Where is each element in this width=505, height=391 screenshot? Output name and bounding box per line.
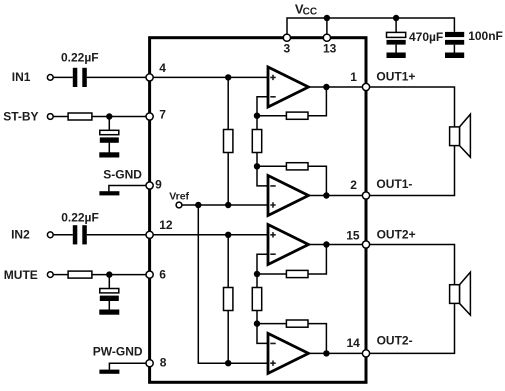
terminal MUTE [47,272,53,278]
node pin12 row / Ri2 top [225,232,231,238]
pin 7 [146,113,153,120]
node op2 output [323,192,329,198]
svg-text:12: 12 [159,218,173,232]
wire S-GND from pin 9 [109,186,148,192]
svg-text:OUT2-: OUT2- [377,334,413,348]
pin 15 [362,241,369,248]
wire fb3 left segment [257,273,286,275]
resistor Rf3 (op3 feedback) [286,270,308,277]
speaker LS2 cone [460,272,471,315]
wire op3 - input [257,254,268,274]
pin 4 [146,74,153,81]
wire LS1 to OUT1- [366,146,455,196]
pin 3 [283,34,290,41]
wire IN2 terminal to C3 [53,234,73,236]
svg-text:14: 14 [347,336,361,350]
wire fb4 left segment [257,323,286,325]
node fb4 / op4 minus [254,320,260,326]
wire Vref rail to op2 + input [182,204,268,206]
pin 13 [323,34,330,41]
pin 9 [146,182,153,189]
op-amp U1C [268,225,309,265]
svg-text:0.22µF: 0.22µF [61,211,99,225]
wire OUT2+ to speaker LS2 [366,245,455,285]
node fb2 / op2 minus [254,163,260,169]
wire C3 to pin 12 [87,234,148,236]
node VCC / C5 [393,15,399,21]
wire op1 output to pin 1 [309,86,367,88]
ground (C5) [387,53,406,59]
wire fb2 left segment [257,165,286,167]
terminal Vref [176,202,182,208]
svg-text:8: 8 [160,355,167,369]
wire Ri1 stubs [227,77,229,205]
wire C5 stub [395,18,397,53]
pin 1 [362,83,369,90]
pin 6 [146,271,153,278]
svg-text:OUT1-: OUT1- [376,177,412,191]
svg-text:MUTE: MUTE [4,268,38,282]
speaker LS2 body [450,285,460,304]
svg-text:6: 6 [159,267,166,281]
wire ST-BY terminal to R1 [53,116,68,118]
wire op2 - input [257,166,268,186]
node op4+ row / Ri2 bottom [225,360,231,366]
ground PW-GND [99,370,119,374]
resistor R2 (MUTE series) [68,271,92,278]
op-amp U1A [268,67,309,107]
wire Vref branch down to op4 + row [198,205,268,363]
wire OUT1+ to speaker LS1 [366,87,455,127]
svg-text:CC: CC [303,6,317,17]
wire R2 to pin 6 [92,274,148,276]
pin 12 [146,231,153,238]
junction node (MUTE) [106,271,112,277]
capacitor C3 0.22uF (series, IN2) [73,225,78,244]
node op4 output [323,350,329,356]
wire pin 13 stub [326,18,328,34]
ground (ST-BY cap) [99,152,119,157]
wire C6 stub [453,45,455,53]
node pin4 row / Ri1 top [225,74,231,80]
svg-text:OUT1+: OUT1+ [376,70,415,84]
speaker LS1 cone [460,114,471,157]
svg-text:100nF: 100nF [468,29,503,43]
wire C1 to pin 4 [87,76,148,78]
wire C4 stub (MUTE cap) [108,275,110,310]
svg-text:PW-GND: PW-GND [93,345,143,359]
wire op1 feedback drop [308,87,326,116]
op-amp U1D [268,333,309,373]
resistor Rf1 (op1 feedback) [286,112,308,119]
resistor Rm2 (between op3- and op4-) [252,288,261,311]
wire LS2 to OUT2- [366,303,455,353]
resistor Rf2 (op2 feedback) [286,163,308,170]
wire C2 stub (ST-BY cap) [108,117,110,153]
op-amp U1B [268,176,309,216]
wire Rm1 stubs [256,116,258,167]
capacitor C1 0.22uF (series, IN1) [73,68,78,87]
wire R1 to pin 7 [92,116,148,118]
node fb3 / op3 minus [254,271,260,277]
capacitor C5 470uF (polarized) [387,32,406,37]
svg-text:7: 7 [159,107,166,121]
wire Rm2 stubs [256,274,258,324]
node op3 output [323,241,329,247]
svg-text:1: 1 [350,70,357,84]
IC U1 outline [150,38,366,383]
capacitor C6 100nF [445,32,464,37]
capacitor C4 (MUTE, polarized) [100,289,119,293]
wire fb1 left segment [257,115,286,117]
resistor Ri1 (input divider ch1) [224,130,233,153]
svg-text:IN1: IN1 [12,70,31,84]
svg-text:0.22µF: 0.22µF [61,51,99,65]
svg-text:Vref: Vref [169,191,189,203]
svg-text:9: 9 [155,177,162,191]
wire op3 feedback drop [308,245,326,275]
wire pin 4 row to op1 + [150,76,268,78]
svg-text:13: 13 [323,41,337,55]
wire fb2 to op2 output [308,166,326,195]
capacitor C2 (ST-BY, polarized) [100,130,119,134]
wire PW-GND from pin 8 [109,363,148,370]
wire op2 output to pin 2 [309,195,367,197]
node op1 output [323,84,329,90]
resistor Ri2 (input divider ch2) [224,288,233,311]
node fb1 / op1 minus [254,113,260,119]
svg-text:OUT2+: OUT2+ [377,228,416,242]
speaker LS1 body [450,127,460,146]
ground (MUTE cap) [99,310,119,315]
node Vref branch [195,202,201,208]
svg-text:ST-BY: ST-BY [3,110,38,124]
ground S-GND [99,191,119,195]
svg-text:470µF: 470µF [409,30,443,44]
resistor Rm1 (between op1- and op2-) [252,130,261,153]
wire op4 - input [257,324,268,344]
wire pin 12 row to op3 + [150,234,268,236]
wire Ri2 stubs [227,235,229,363]
wire fb4 to op4 output [308,324,326,354]
terminal ST-BY [47,114,53,120]
wire op1 - input [257,97,268,116]
wire op4 output to pin 14 [309,352,367,354]
svg-text:4: 4 [159,61,166,75]
svg-text:15: 15 [346,228,360,242]
svg-text:IN2: IN2 [11,228,30,242]
junction node (ST-BY) [106,113,112,119]
resistor Rf4 (op4 feedback) [286,320,308,327]
svg-text:S-GND: S-GND [103,168,142,182]
pin 2 [362,192,369,199]
wire op3 output to pin 15 [309,244,367,246]
svg-text:3: 3 [284,41,291,55]
svg-text:2: 2 [350,178,357,192]
wire MUTE terminal to R2 [53,274,68,276]
terminal IN1 [47,75,53,81]
resistor R1 (ST-BY series) [68,113,92,120]
wire VCC rail [287,18,454,34]
pin 14 [362,350,369,357]
node VCC / pin 13 [324,15,330,21]
pin 8 [146,360,153,367]
ground (C6) [445,53,464,59]
node Vref / Ri1 bottom [225,202,231,208]
terminal IN2 [47,232,53,238]
wire IN1 terminal to C1 [53,76,73,78]
